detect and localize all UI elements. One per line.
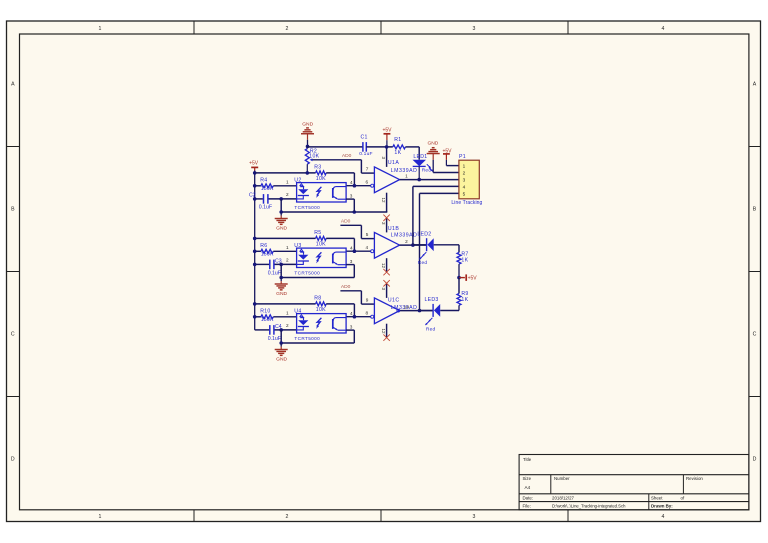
pin 3 label U1A [381,157,386,160]
capacitor C4 labels [268,324,282,342]
title block text [523,457,704,509]
net label AD0 ch1 [342,153,352,159]
svg-text:D: D [11,457,15,463]
svg-text:Title: Title [523,457,532,462]
op-amp U1C body [374,298,399,324]
svg-text:150K: 150K [261,317,274,323]
svg-text:Red: Red [418,260,428,266]
designator U3 [294,243,301,249]
wire LED2 anode [413,244,426,246]
op-amp U1B body [374,232,399,258]
value TCRT5000 U3 [294,270,320,275]
capacitor C4 [270,325,274,335]
svg-text:U4: U4 [294,308,301,314]
capacitor C1 [363,142,366,152]
svg-text:2: 2 [286,514,289,520]
svg-text:Drawn By:: Drawn By: [651,504,673,509]
inverting input bubble U1B [371,250,374,253]
wire P1 pin1 [446,165,459,167]
svg-text:7: 7 [366,166,369,171]
wire ground net ch1 [281,211,387,213]
svg-text:R10: R10 [260,309,270,315]
svg-text:3: 3 [473,514,476,520]
svg-text:Revision: Revision [686,476,703,481]
pin numbers U4 [286,311,353,330]
resistor R1 labels [394,137,401,156]
no-ERC marker bottom U1C [383,334,389,340]
resistor R6 150K with wire [255,249,297,253]
svg-text:1: 1 [99,26,102,32]
optocoupler U3 body [297,248,347,267]
svg-text:A: A [753,82,757,88]
designator U2 [294,177,301,183]
wire AD0 net ch3 [340,291,374,304]
svg-text:LED2: LED2 [417,231,431,237]
LED LED1 labels [413,154,431,173]
connector P1 pin numbers [463,163,466,196]
wire emitter U2 [346,199,354,212]
svg-text:+5V: +5V [468,275,478,281]
output bubble U1C [397,309,400,312]
svg-text:1: 1 [99,514,102,520]
net label AD0 ch2 [341,218,351,224]
pin number texts U1C [365,297,409,315]
wire U1A power pin 3 [386,147,388,167]
svg-text:1K: 1K [394,150,401,156]
svg-text:1K: 1K [461,258,468,264]
comment Line Tracking [451,200,482,206]
optocoupler U3 emitter diode [297,249,309,264]
svg-text:6: 6 [365,180,368,185]
svg-text:U3: U3 [294,243,301,249]
svg-text:Line Tracking: Line Tracking [451,200,482,206]
svg-text:Number: Number [554,476,570,481]
power +5V main [249,161,259,173]
junction bus top [253,171,257,175]
junction output-pin5 P1 [418,309,422,313]
inverting input bubble U1A [371,184,374,187]
svg-text:1: 1 [286,245,289,250]
wire ground net ch2 [281,277,354,279]
svg-text:AD0: AD0 [342,153,352,159]
power +5V LED column [457,274,477,281]
svg-text:2: 2 [286,192,289,197]
wire P1 pin5 [420,193,459,310]
svg-text:+5V: +5V [249,161,259,167]
svg-text:GND: GND [276,225,287,231]
svg-text:0.1uF: 0.1uF [359,151,373,157]
svg-text:GND: GND [427,141,438,147]
optocoupler U4 body [297,314,347,333]
optocoupler U2 body [297,183,347,202]
svg-text:4: 4 [662,26,665,32]
junction +5V-R1-pin3 [385,145,389,149]
svg-text:GND: GND [276,356,287,362]
optocoupler U2 phototransistor [333,187,346,200]
svg-text:4: 4 [350,180,353,185]
svg-text:1: 1 [463,163,466,168]
pin 12 label U1A [381,197,386,203]
svg-text:TCRT5000: TCRT5000 [294,336,320,341]
svg-text:3: 3 [350,259,353,264]
optocoupler U3 phototransistor [333,252,346,265]
wire ground net ch3 [281,342,354,344]
optocoupler U4 phototransistor [333,318,346,331]
junction C3-gnd node [279,263,283,267]
resistor R3 labels [314,164,326,181]
svg-text:5: 5 [463,191,466,196]
wire emitter U3 [346,265,354,278]
svg-text:R6: R6 [260,243,267,249]
pin 12 label U1B [381,263,386,269]
wire U1C power pin 12 stub [386,324,388,338]
inverting input bubble U1C [371,315,374,318]
pin 3 label U1B [381,222,386,225]
pin numbers U3 [286,245,353,264]
svg-text:Size: Size [523,476,532,481]
wire output U1B [400,244,426,246]
svg-text:0.1uF: 0.1uF [268,270,281,276]
svg-text:LM339AD: LM339AD [391,168,418,174]
designator U1C [388,297,400,303]
svg-text:2018/12/27: 2018/12/27 [552,496,575,501]
junction gnd stem ch3 [279,341,283,345]
designator P1 [459,154,466,160]
svg-text:12: 12 [381,263,386,269]
ground symbol ch3 [275,343,288,362]
svg-text:10K: 10K [316,241,326,247]
resistor R7 [457,252,461,277]
resistor R6 labels [260,243,274,258]
resistor R3 10K with pullup wire [255,171,355,186]
power +5V P1 [442,148,452,165]
svg-text:LED3: LED3 [425,297,439,303]
junction inverting input U1B [353,249,357,253]
svg-text:2: 2 [286,323,289,328]
svg-text:Sheet: Sheet [651,496,663,501]
connector P1 body [459,160,479,199]
svg-text:LED1: LED1 [413,154,427,160]
junction output-pin4 P1 [411,243,415,247]
svg-text:14: 14 [404,305,410,310]
optocoupler U2 light arrow [316,187,321,198]
potentiometer R2 [305,146,309,173]
junction C2-gnd node [279,197,283,201]
junction bus-R6 [253,250,257,254]
wire P1 pin2 [433,172,459,174]
potentiometer R2 wiper [310,158,313,161]
value TCRT5000 U4 [294,336,320,341]
resistor R5 10K with pullup wire [255,236,355,251]
svg-text:12: 12 [381,197,386,203]
svg-text:1: 1 [286,180,289,185]
wire C4 to ground [280,330,282,343]
LED LED1 [413,160,427,180]
LED LED2 labels [417,231,431,265]
optocoupler U2 emitter diode [297,184,309,199]
resistor R8 labels [314,295,326,312]
LED LED1 emission arrows [427,164,433,171]
svg-text:GND: GND [276,291,287,297]
junction bus-R8 [253,302,257,306]
resistor R9 labels [461,291,468,303]
svg-text:1: 1 [405,174,408,179]
svg-text:R4: R4 [260,178,267,184]
svg-text:8: 8 [365,311,368,316]
junction emitter ch1 [353,210,357,214]
svg-text:Date:: Date: [523,496,534,501]
ground symbol top [301,121,314,146]
svg-text:C1: C1 [360,135,367,141]
svg-text:R8: R8 [314,295,321,301]
svg-text:+5V: +5V [382,127,392,133]
net label AD0 ch3 [341,284,351,290]
pin numbers U2 [286,180,353,199]
resistor R9 [457,294,461,311]
optocoupler U4 light arrow [316,318,321,329]
wire P1 pin4 [413,186,459,245]
optocoupler U3 light arrow [316,252,321,263]
svg-text:C2: C2 [249,193,256,199]
svg-text:3: 3 [350,194,353,199]
ground symbol P1 [427,141,440,173]
wire U1C power pin 3 stub [386,284,388,298]
junction bus-R10 [253,315,257,319]
svg-text:4: 4 [350,311,353,316]
wire emitter U4 [346,330,354,343]
svg-text:9: 9 [366,297,369,302]
svg-text:150K: 150K [261,186,274,192]
capacitor C2 [264,194,268,204]
svg-text:12: 12 [381,328,386,334]
svg-text:D: D [753,457,757,463]
wire inverting input U1B [346,250,371,252]
svg-text:10K: 10K [316,307,326,313]
svg-text:3: 3 [463,177,466,182]
svg-text:4: 4 [365,245,368,250]
svg-text:2: 2 [463,170,466,175]
wire inverting input U1A [346,185,371,187]
svg-text:AD0: AD0 [341,218,351,224]
wire capacitor line C4 [255,329,297,331]
LED LED3 [433,304,440,317]
svg-text:2: 2 [405,239,408,244]
svg-text:D:\work\..\Line_Tracking-integ: D:\work\..\Line_Tracking-integrated.Sch [552,504,626,509]
value LM339AD U1A [391,168,418,174]
junction gnd stem ch2 [279,276,283,280]
pin 3 label U1C [381,288,386,291]
pin number texts U1A [365,166,408,184]
svg-text:U1B: U1B [388,226,399,232]
junction gnd-pot-wire [306,145,310,149]
title block grid [519,455,749,510]
junction gnd stem ch1 [279,210,283,214]
junction output-pin3 P1 [417,178,421,182]
svg-text:TCRT5000: TCRT5000 [294,205,320,210]
wire capacitor line C2 [255,198,297,200]
wire output U1A [400,179,459,181]
svg-text:0.1uF: 0.1uF [268,336,281,342]
svg-text:TCRT5000: TCRT5000 [294,270,320,275]
svg-text:R5: R5 [314,230,321,236]
wire LED2 to R7 [434,245,459,253]
resistor R4 labels [260,178,274,193]
wire AD0 net ch2 [340,225,374,238]
svg-text:3: 3 [350,325,353,330]
ground symbol ch2 [275,278,288,297]
svg-text:C: C [753,332,757,338]
wire top rail right [366,145,419,160]
wire R9 to LED3 [440,310,459,312]
resistor R7 labels [461,252,468,264]
wire C2 to ground [280,199,282,212]
svg-text:2: 2 [286,26,289,32]
potentiometer R2 labels [309,148,319,159]
pin number texts U1B [365,232,408,250]
value LM339AD U1B [391,233,418,239]
svg-text:5: 5 [366,232,369,237]
svg-text:10K: 10K [309,154,319,160]
optocoupler U4 emitter diode [297,315,309,330]
junction bus-R5 [253,237,257,241]
no-ERC marker top U1C [383,280,389,286]
wire inverting input U1C [346,316,371,318]
svg-text:B: B [753,207,757,213]
svg-text:Red: Red [426,326,436,332]
svg-text:AD0: AD0 [341,284,351,290]
pin 12 label U1C [381,328,386,334]
svg-text:4: 4 [463,184,466,189]
junction C4-gnd node [279,328,283,332]
capacitor C3 [270,260,274,270]
wire U1B power pin 3 stub [386,218,388,232]
svg-text:A4: A4 [525,485,531,490]
junction inverting input U1C [353,315,357,319]
value LM339AD U1C [391,305,418,311]
svg-text:3: 3 [473,26,476,32]
svg-text:2: 2 [286,258,289,263]
wire output U1C [400,310,433,312]
svg-text:U1A: U1A [388,160,399,166]
junction bus-R4 [253,184,257,188]
junction inverting input U1A [353,184,357,188]
svg-text:C: C [11,332,15,338]
wire +5V vertical bus [254,173,256,330]
LED LED3 emission arrows [425,318,432,325]
resistor R4 150K with wire [255,184,297,188]
svg-text:1K: 1K [461,297,468,303]
wire U1B power pin 12 stub [386,258,388,272]
svg-text:B: B [11,207,15,213]
junction pot-rail [306,171,310,175]
resistor R5 labels [314,230,326,247]
wire U1A power pin 12 [386,193,388,212]
svg-text:0.1uF: 0.1uF [259,204,272,210]
svg-text:Red: Red [422,168,432,174]
svg-text:U1C: U1C [388,297,400,303]
junction bus-C3 [253,263,257,267]
resistor R10 labels [260,309,274,324]
LED LED2 [427,238,434,251]
LED LED2 emission arrows [419,252,426,259]
value TCRT5000 U2 [294,205,320,210]
ground symbol ch1 [275,212,288,231]
no-ERC marker bottom U1B [383,269,389,275]
wire C3 to ground [280,264,282,277]
svg-text:GND: GND [302,121,313,127]
power +5V R1 [382,127,392,147]
svg-text:4: 4 [350,246,353,251]
wire top rail left [308,146,363,148]
svg-text:P1: P1 [459,154,466,160]
wire AD0 net ch1 [311,160,374,173]
svg-text:10K: 10K [316,176,326,182]
designator U1B [388,226,399,232]
wire capacitor line C3 [255,263,297,265]
LED LED3 labels [425,297,439,332]
svg-text:File:: File: [523,504,531,509]
resistor R8 10K with pullup wire [255,302,355,317]
capacitor C3 labels [268,258,282,276]
junction bus-C2 [253,197,257,201]
resistor R10 150K with wire [255,315,297,319]
svg-text:4: 4 [662,514,665,520]
svg-text:150K: 150K [261,252,274,258]
no-ERC marker top U1B [383,215,389,221]
capacitor C2 labels [249,193,272,211]
svg-text:R3: R3 [314,164,321,170]
designator U1A [388,160,399,166]
svg-text:U2: U2 [294,177,301,183]
capacitor C1 labels [359,135,373,157]
svg-text:R1: R1 [394,137,401,143]
designator U4 [294,308,301,314]
svg-text:1: 1 [286,311,289,316]
svg-text:A: A [11,82,15,88]
wire LED3 cathode [420,310,433,312]
wire +5V to R9 [458,278,460,294]
op-amp U1A body [374,167,399,193]
